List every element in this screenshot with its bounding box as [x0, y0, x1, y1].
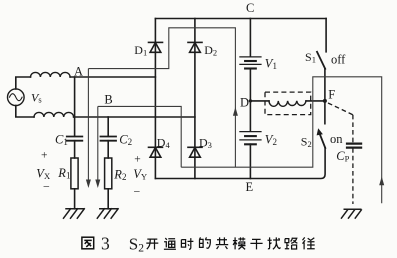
路	[285, 238, 298, 249]
svg-text:C: C	[246, 1, 254, 15]
svg-text:Vs: Vs	[31, 90, 42, 104]
path wire horizontal above rail E	[181, 77, 382, 203]
battery stem V1 top	[249, 19, 251, 57]
ac source sine wave	[10, 94, 23, 101]
diode D2	[188, 42, 202, 52]
svg-text:CP: CP	[336, 149, 349, 164]
模	[233, 237, 246, 249]
switch S1 upper contact	[325, 19, 327, 52]
diode D3	[188, 147, 202, 157]
wire bridge left leg	[154, 19, 156, 179]
path wire from B area across	[98, 106, 181, 167]
svg-text:B: B	[104, 92, 112, 106]
node F junction dot	[323, 99, 327, 103]
wire node D to transformer	[250, 100, 269, 102]
path wire from A area: across, up, along top, down past V1/V2	[88, 28, 235, 167]
svg-text:S1: S1	[305, 50, 316, 65]
wire V1 to node D to V2	[249, 68, 251, 131]
path wire down beside R1	[87, 69, 89, 181]
diode D4	[149, 147, 163, 157]
resistor R1	[71, 158, 78, 189]
capacitor Cp	[346, 144, 362, 148]
svg-text:−: −	[134, 185, 141, 199]
wire C1 to R1	[74, 141, 76, 158]
transformer winding	[269, 101, 306, 106]
svg-text:V1: V1	[265, 57, 277, 72]
svg-text:3: 3	[101, 234, 110, 254]
图	[82, 237, 94, 249]
diode D1	[149, 42, 163, 52]
svg-text:−: −	[43, 180, 50, 194]
inductor bottom (LISN)	[34, 112, 74, 117]
path arrowhead up (beside V1)	[233, 107, 238, 116]
inductor top (LISN)	[31, 72, 71, 77]
wire S1 to node F	[324, 69, 326, 101]
switch S1 blade (off)	[317, 52, 325, 69]
svg-text:D: D	[240, 95, 249, 109]
node D junction dot	[249, 99, 252, 102]
svg-text:A: A	[74, 65, 83, 79]
wire V2 to rail E	[249, 144, 251, 178]
svg-text:S2: S2	[129, 234, 144, 254]
caption: 图 3 S2 开通时的共模干扰路径	[82, 237, 94, 249]
switch S2 blade (on)	[320, 134, 326, 148]
ac source Vs circle	[8, 89, 25, 106]
ground (right, below Cp)	[341, 209, 362, 218]
wire rail A : node A to bridge	[70, 76, 155, 78]
svg-text:D1: D1	[134, 43, 147, 58]
switch S2 arrowhead	[317, 128, 323, 135]
dashed wire down to Cp	[352, 115, 354, 143]
path arrowhead up (right side)	[379, 177, 384, 186]
wire R1 to ground	[74, 189, 76, 209]
svg-text:C2: C2	[119, 133, 132, 148]
开	[146, 239, 158, 249]
wire bridge right leg	[194, 19, 196, 179]
wire winding to node F	[306, 100, 325, 102]
path arrowhead down (R1)	[86, 180, 91, 189]
svg-text:F: F	[328, 87, 335, 101]
wire R2 to ground	[107, 189, 109, 209]
径	[303, 237, 315, 249]
wire source top to rail	[16, 77, 31, 89]
ground (left, below R1)	[64, 209, 85, 218]
wire source bottom	[16, 106, 34, 118]
battery V1	[240, 57, 261, 69]
common-mode path (thin lines)	[86, 28, 384, 203]
capacitor C1	[67, 137, 83, 141]
ground (second, below R2)	[97, 209, 118, 218]
wire bottom rail E with corner up to S2	[155, 148, 325, 179]
switch S2 upper contact	[324, 101, 326, 124]
capacitor C2	[101, 137, 117, 141]
svg-text:on: on	[330, 132, 343, 146]
wire C2 to R2	[107, 141, 109, 158]
dashed wire node F diagonal to Cp	[328, 103, 353, 115]
svg-text:V2: V2	[265, 133, 277, 148]
扰	[268, 237, 281, 249]
svg-text:R1: R1	[57, 166, 70, 181]
干	[250, 239, 262, 249]
svg-text:D2: D2	[204, 43, 217, 58]
wire top rail C	[155, 18, 326, 20]
dashed wire Cp to ground	[352, 148, 354, 204]
svg-text:E: E	[246, 180, 254, 194]
svg-text:R2: R2	[113, 168, 126, 183]
battery V2	[240, 132, 261, 145]
wire branch A down to C1	[74, 77, 76, 136]
path wire down beside R2	[97, 106, 99, 181]
svg-text:VY: VY	[133, 167, 147, 182]
path arrowhead down (R2)	[95, 180, 100, 189]
transformer dashed box	[265, 92, 311, 115]
svg-text:D4: D4	[157, 135, 171, 150]
时	[181, 238, 193, 249]
共	[216, 237, 228, 249]
svg-text:+: +	[41, 149, 48, 161]
svg-text:D3: D3	[199, 135, 212, 150]
通	[164, 238, 176, 249]
的	[200, 237, 211, 248]
svg-text:off: off	[331, 53, 346, 67]
svg-text:C1: C1	[55, 133, 68, 148]
wire rail B : node B to bridge	[74, 116, 195, 118]
resistor R2	[105, 158, 112, 189]
svg-text:+: +	[134, 153, 141, 165]
wire branch B down to C2	[107, 117, 109, 136]
svg-text:S2: S2	[301, 135, 312, 150]
